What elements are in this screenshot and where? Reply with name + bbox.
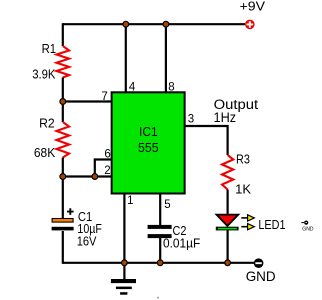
wire left rail C1 bottom to ground rail [62, 231, 64, 264]
svg-text:3.9K: 3.9K [32, 67, 56, 81]
stray dot artifact [157, 297, 159, 299]
svg-text:0.01µF: 0.01µF [163, 236, 201, 250]
wire pin5 down to C2 [159, 194, 161, 225]
svg-text:4: 4 [129, 82, 136, 94]
svg-text:1: 1 [127, 195, 133, 207]
svg-text:R2: R2 [39, 116, 55, 130]
GND terminal [254, 258, 264, 268]
capacitor C2 top plate [148, 225, 172, 229]
junction ground rail / pin1 [122, 260, 128, 266]
capacitor C1 bottom plate [52, 227, 74, 231]
wire top rail from left rail to +9V terminal [63, 23, 245, 25]
junction ground rail / LED [225, 260, 231, 266]
svg-text:3: 3 [188, 114, 194, 126]
svg-text:7: 7 [101, 91, 107, 103]
svg-text:16V: 16V [77, 235, 97, 249]
wire pin3 output to R3 top [185, 126, 228, 155]
wire LED bottom to ground rail [227, 230, 229, 263]
tiny GND cursor icon [301, 221, 314, 233]
wire pin2 stub [63, 175, 112, 177]
svg-text:8: 8 [168, 82, 174, 94]
resistor R1 [57, 46, 70, 78]
svg-text:R1: R1 [42, 42, 57, 56]
capacitor C1 polarized top plate (orange) [52, 219, 73, 223]
wire ground symbol stub [123, 263, 125, 279]
LED light arrow 1 [241, 215, 254, 221]
svg-text:68K: 68K [34, 146, 56, 160]
IC IC1 (555 timer) body [112, 92, 185, 193]
junction pin6/pin2 wire [92, 174, 98, 180]
C1 plus polarity mark [67, 208, 74, 215]
svg-text:R3: R3 [236, 152, 250, 166]
wire C2 bottom to ground rail [159, 238, 161, 263]
svg-text:IC1: IC1 [139, 125, 158, 139]
wire R3 bottom to LED top [227, 190, 229, 216]
LED light arrow 2 [241, 224, 254, 230]
resistor R2 [57, 122, 70, 158]
wire pin7 stub [63, 100, 112, 102]
wire bottom ground rail [63, 262, 254, 264]
LED1 anode triangle [217, 215, 239, 226]
svg-text:GND: GND [246, 268, 276, 284]
wire pin6 stub [95, 160, 112, 177]
wire left rail top corner down to R1 top [62, 23, 64, 46]
junction ground rail / C2 [157, 260, 163, 266]
svg-text:555: 555 [138, 141, 159, 155]
wire R2 bottom to C1 top [62, 158, 64, 219]
resistor R3 [222, 155, 233, 190]
capacitor C2 bottom plate [148, 234, 172, 238]
junction top rail / pin4 [123, 21, 129, 27]
svg-text:2: 2 [104, 165, 110, 177]
wire pin8 drop [165, 24, 167, 92]
wire pin4 drop [125, 24, 127, 92]
svg-text:LED1: LED1 [258, 218, 285, 232]
wire R1 bottom to R2 top [62, 78, 64, 123]
svg-text:+9V: +9V [240, 0, 266, 14]
LED1 cathode bar green core [218, 228, 237, 230]
svg-text:1K: 1K [235, 183, 252, 197]
svg-text:6: 6 [104, 148, 110, 160]
junction left rail / pin2 [60, 174, 66, 180]
svg-text:GND: GND [302, 227, 314, 233]
+9V power terminal [245, 20, 255, 30]
ground symbol [111, 279, 136, 295]
svg-text:1Hz: 1Hz [214, 110, 237, 125]
svg-text:5: 5 [164, 199, 170, 211]
junction left rail / pin7 [60, 99, 66, 105]
wire pin1 down to ground rail [123, 194, 125, 263]
junction top rail / pin8 [163, 21, 169, 27]
LED1 cathode bar outer [216, 227, 239, 231]
